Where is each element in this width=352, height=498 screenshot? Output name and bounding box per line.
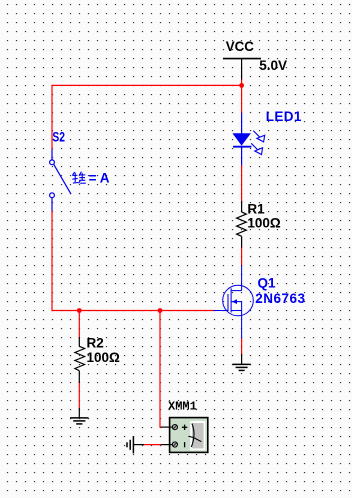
svg-text:LED1: LED1	[266, 109, 302, 124]
wire: top horizontal from S2 branch to VCC node	[52, 84, 242, 86]
resistor R2	[75, 337, 85, 383]
switch S2	[50, 149, 71, 210]
svg-text:100Ω: 100Ω	[247, 216, 281, 231]
wire: LED cathode to R1	[241, 165, 243, 201]
svg-text:2N6763: 2N6763	[255, 291, 305, 306]
MOSFET Q1	[214, 265, 254, 338]
power VCC symbol	[223, 59, 261, 80]
junction: VCC node	[239, 83, 244, 88]
wire: left vertical upper (to S2 top pin)	[51, 85, 53, 150]
svg-text:R2: R2	[87, 335, 104, 350]
svg-text:R1: R1	[247, 201, 265, 216]
label key = A (Chinese glyph drawn as strokes)	[72, 172, 86, 184]
junction: bottom rail / XMM1 branch	[158, 308, 163, 313]
LED emission arrow 1	[253, 131, 264, 142]
svg-text:5.0V: 5.0V	[259, 58, 287, 73]
LED emission arrow 2	[251, 143, 262, 154]
LED D1 symbol	[232, 113, 251, 166]
ground (below R2)	[70, 408, 88, 424]
junction: bottom rail / R2 branch	[77, 308, 82, 313]
wire: bottom horizontal rail to Q1 gate	[52, 310, 214, 312]
wire: XMM1 branch vertical from bottom rail	[160, 311, 162, 428]
svg-text:= A: = A	[89, 171, 110, 186]
svg-text:Q1: Q1	[258, 275, 277, 290]
wire: Q1 source to ground	[241, 338, 243, 354]
wire: R1 to Q1 drain	[241, 247, 243, 265]
ground (below Q1)	[233, 354, 251, 371]
resistor R1	[237, 201, 247, 248]
wire: R2 bottom to ground	[78, 383, 80, 409]
wire: left vertical lower (S2 bottom pin down to bottom rail)	[51, 211, 53, 312]
multimeter XMM1	[161, 418, 208, 453]
ground (left of XMM1, rotated)	[127, 436, 144, 453]
wire: VCC node down to LED anode	[241, 79, 243, 113]
wire: ground to XMM1 minus terminal	[144, 444, 162, 446]
svg-text:S2: S2	[52, 130, 65, 145]
wire: R2 branch from bottom rail	[78, 311, 80, 338]
svg-text:XMM1: XMM1	[168, 400, 197, 414]
svg-text:VCC: VCC	[226, 39, 254, 54]
svg-text:100Ω: 100Ω	[87, 350, 121, 365]
